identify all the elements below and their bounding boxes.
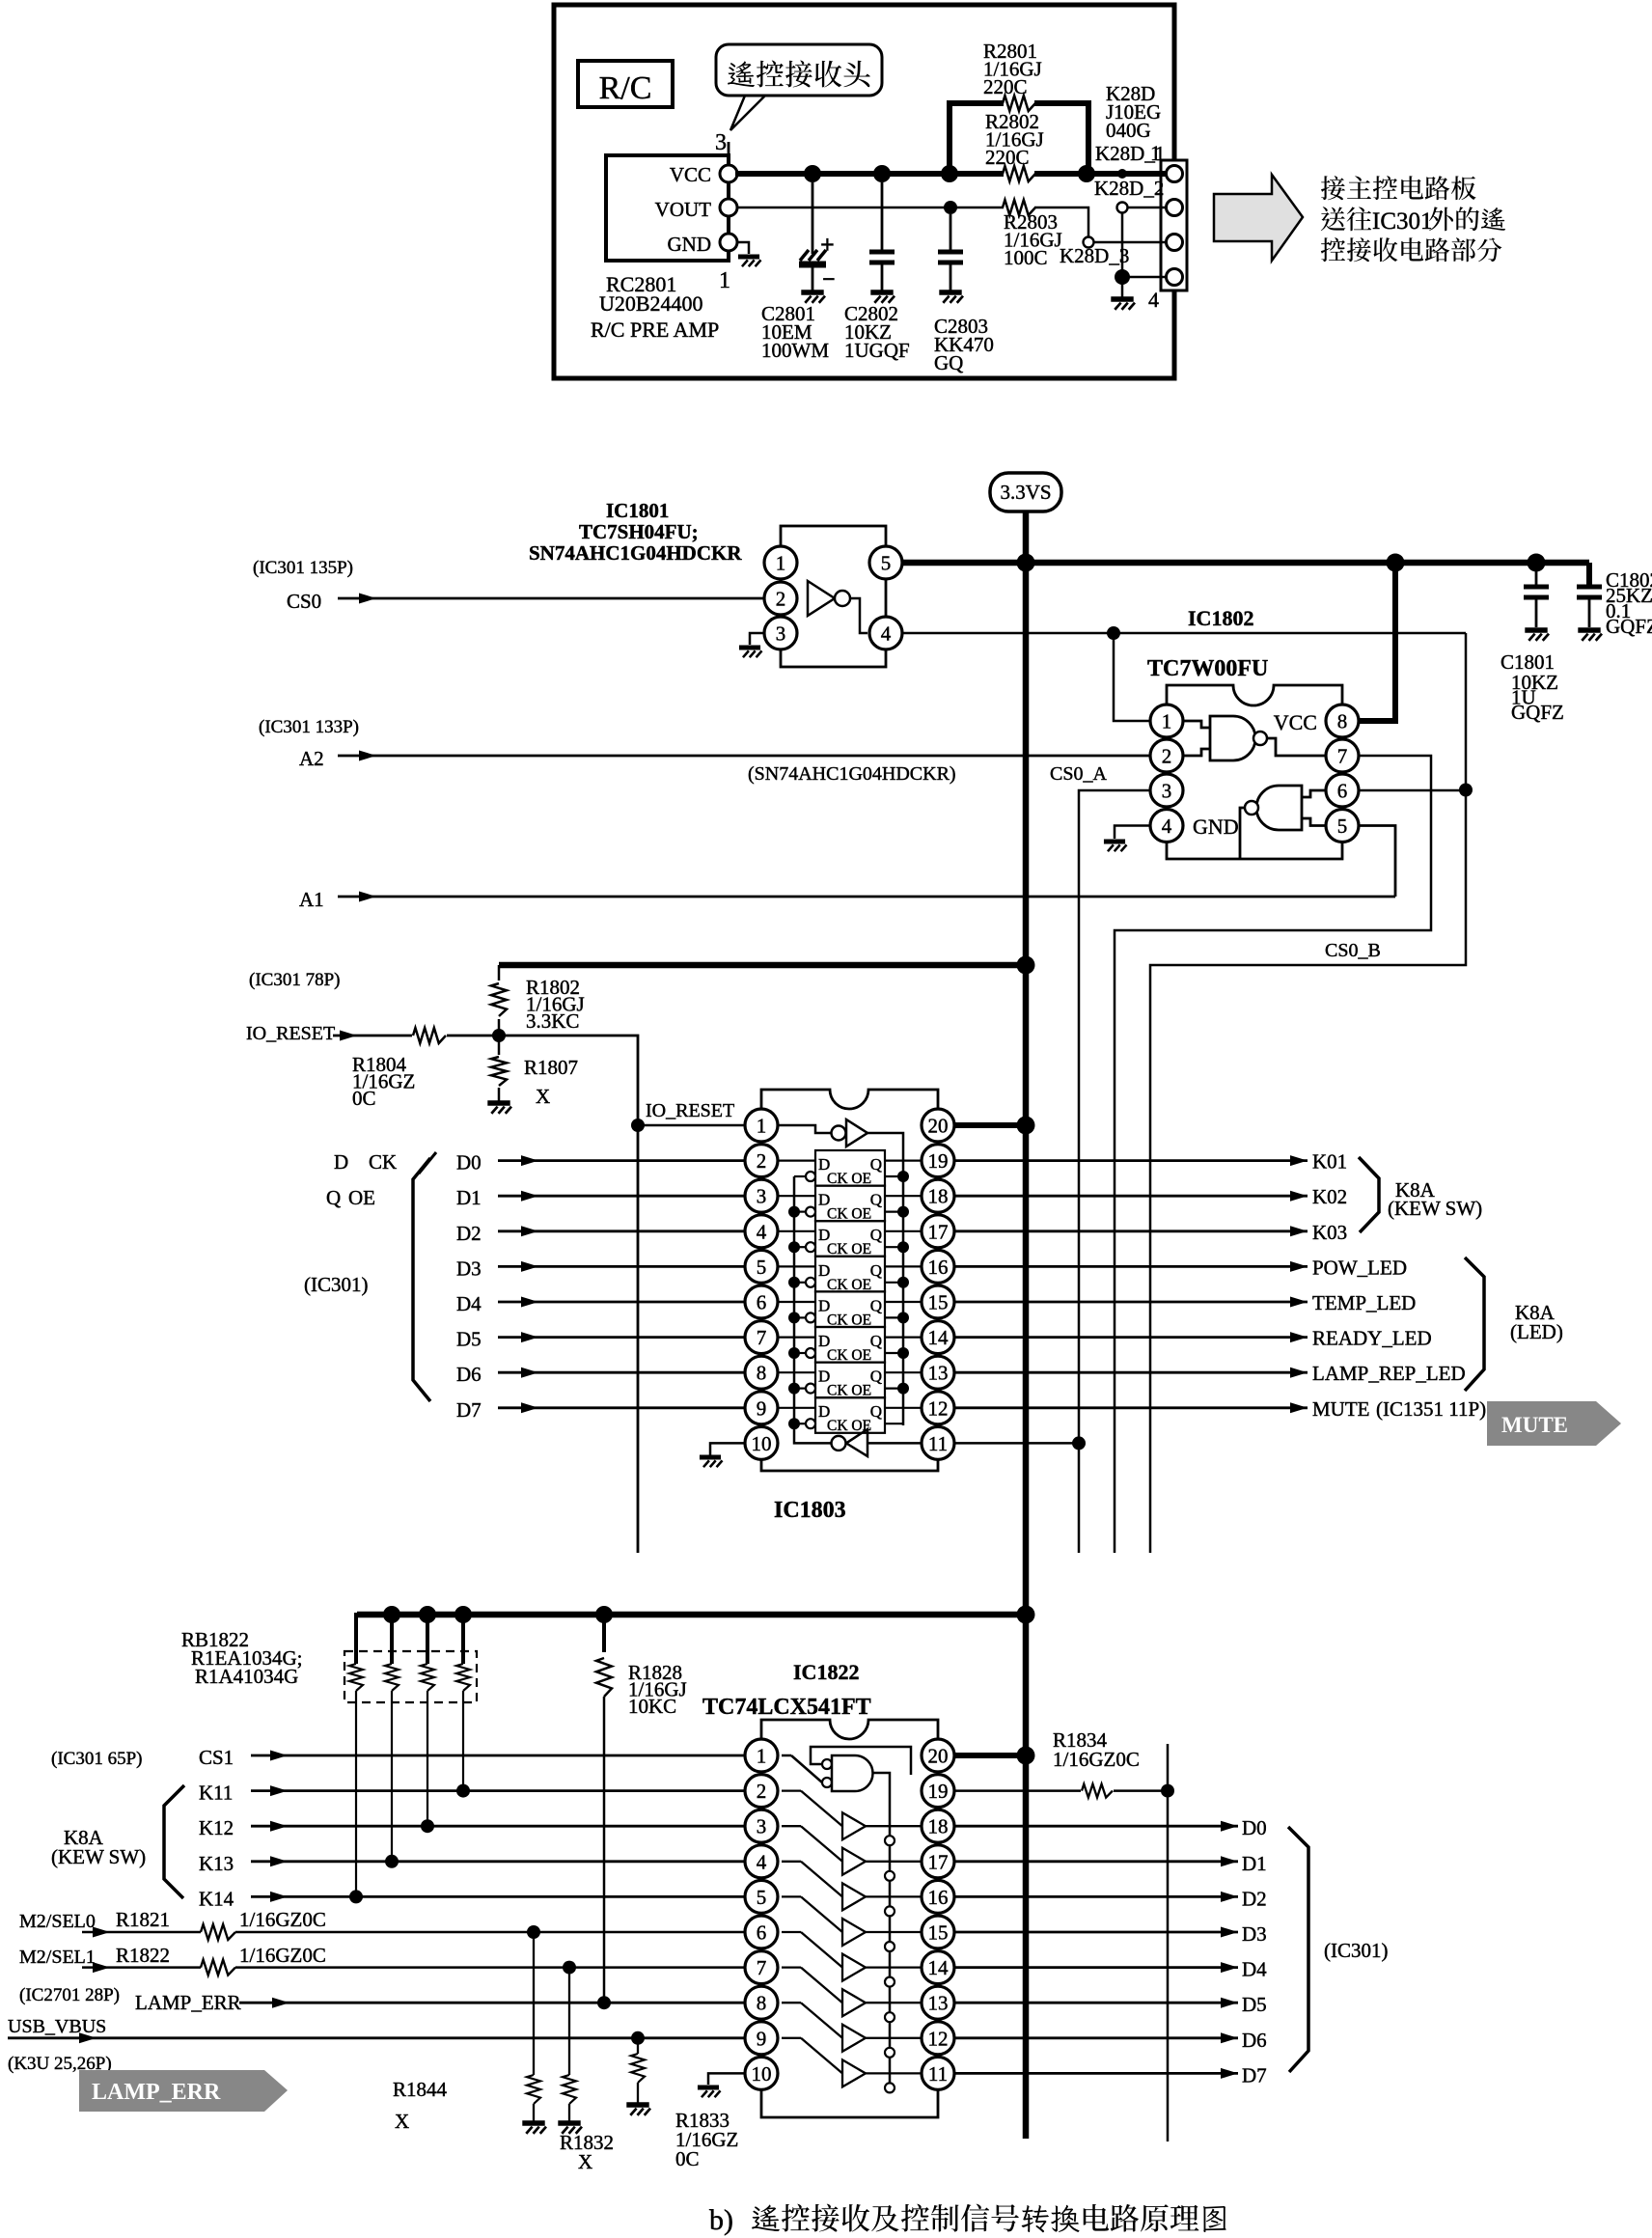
ground at C1802 <box>1578 627 1600 632</box>
IC1822 pin 17 <box>922 1845 954 1878</box>
inverter IC1803 CK <box>794 1176 922 1456</box>
svg-text:LAMP_ERR: LAMP_ERR <box>135 1991 241 2014</box>
svg-text:IC1822: IC1822 <box>793 1660 859 1684</box>
svg-text:(KEW SW): (KEW SW) <box>1388 1197 1482 1220</box>
IC1803 pin 20 <box>922 1109 954 1142</box>
wire IC1801 pin4 to IC1802 <box>903 632 1466 635</box>
IC1803 pin 4 <box>745 1215 778 1248</box>
node R1828 rail <box>595 1606 613 1623</box>
latch cell 6 of IC1803 <box>794 1363 903 1399</box>
wire M2/SEL0 to pin6 <box>235 1931 745 1934</box>
wire D0 out <box>955 1825 1238 1828</box>
IC1802 pin 3 <box>1150 774 1183 807</box>
svg-text:15: 15 <box>928 1921 949 1945</box>
svg-text:MUTE: MUTE <box>1312 1397 1370 1421</box>
svg-text:Q: Q <box>870 1368 882 1386</box>
svg-text:1: 1 <box>776 552 786 575</box>
K28D pin 2 circle <box>1166 207 1175 208</box>
RC2801 GND wire <box>737 242 749 254</box>
ground at C2802 <box>870 290 893 294</box>
svg-text:CK OE: CK OE <box>827 1277 871 1293</box>
3.3VS rail to R1802 <box>499 962 1026 969</box>
svg-text:A2: A2 <box>299 747 324 770</box>
IC1803 pin 7 <box>745 1321 778 1354</box>
svg-text:19: 19 <box>928 1780 949 1803</box>
svg-text:R1A41034G: R1A41034G <box>195 1665 298 1688</box>
wire D2 to IC1803 <box>498 1230 745 1232</box>
svg-text:D0: D0 <box>1242 1816 1267 1839</box>
wire IC1803 Q0 internal <box>885 1159 922 1161</box>
ground at C1801 <box>1525 627 1547 632</box>
node pin11/CS0_A <box>1072 1436 1086 1450</box>
ground at R1807 <box>487 1100 509 1105</box>
node RB1822-3 rail <box>419 1606 436 1623</box>
buffer IC1822-1 <box>782 1791 922 1846</box>
IC1822 pin 10 <box>745 2057 778 2089</box>
svg-text:1UGQF: 1UGQF <box>844 339 910 362</box>
IC1803 pin 14 <box>922 1321 954 1354</box>
wire K13 <box>251 1860 745 1863</box>
svg-text:CK OE: CK OE <box>827 1418 871 1434</box>
svg-text:1: 1 <box>1162 710 1172 733</box>
svg-text:(IC2701 28P): (IC2701 28P) <box>19 1985 120 2005</box>
svg-text:7: 7 <box>757 1326 767 1349</box>
resistor R1834 <box>1082 1784 1113 1798</box>
svg-text:10KC: 10KC <box>628 1695 676 1718</box>
svg-text:TC7SH04FU;: TC7SH04FU; <box>579 520 699 543</box>
RC2801 body box <box>606 155 729 261</box>
IC1802 pin 5 <box>1326 810 1359 843</box>
svg-text:GND: GND <box>668 233 712 256</box>
svg-text:D0: D0 <box>456 1151 482 1174</box>
wire D1 to IC1803 <box>498 1195 745 1198</box>
IC1822 pin 12 <box>922 2022 954 2055</box>
svg-text:8: 8 <box>1337 710 1348 733</box>
svg-text:CK OE: CK OE <box>827 1206 871 1223</box>
buffer IC1822-8 <box>782 2038 922 2093</box>
svg-text:D1: D1 <box>1242 1852 1267 1875</box>
ground at C2801 <box>801 290 823 294</box>
svg-text:IC301: IC301 <box>1372 208 1433 235</box>
wire R1834 to stub <box>1114 1789 1168 1792</box>
IC1803 pin 10 <box>745 1426 778 1459</box>
svg-text:100WM: 100WM <box>761 339 829 362</box>
wire M2/SEL1 in <box>82 1966 201 1969</box>
node IC1802 pin1 branch <box>1107 626 1120 640</box>
node OE bus cell 4 <box>897 1312 909 1323</box>
IC1803 pin 3 <box>745 1179 778 1212</box>
svg-text:9: 9 <box>757 1396 767 1420</box>
IC1802 pin 7 <box>1326 739 1359 772</box>
svg-text:5: 5 <box>1337 815 1348 838</box>
brace K8A LED <box>1465 1257 1484 1391</box>
IC1822 pin 18 <box>922 1810 954 1842</box>
wire IO_RESET in <box>333 1035 412 1037</box>
node C1801 rail <box>1528 554 1546 572</box>
IC1803 pin 2 <box>745 1145 778 1177</box>
svg-text:VCC: VCC <box>1274 710 1317 734</box>
wire K28D_4 to pin4 <box>1122 276 1166 279</box>
node RB1822/K12 <box>421 1819 434 1833</box>
svg-text:10: 10 <box>752 1432 772 1455</box>
buffer IC1822-7 <box>782 2003 922 2058</box>
svg-text:17: 17 <box>928 1850 949 1873</box>
latch cell 7 of IC1803 <box>794 1397 903 1434</box>
IC1803 pin 5 <box>745 1250 778 1283</box>
node RB1822/K14 <box>349 1890 363 1903</box>
wire IC1803 pin20 VCC <box>955 1122 1026 1128</box>
capacitor C2802 <box>881 182 884 252</box>
latch cell 3 of IC1803 <box>794 1257 903 1293</box>
3.3VS vertical bus <box>1023 511 1030 2139</box>
buffer IC1822-3 <box>782 1862 922 1917</box>
svg-text:IC1803: IC1803 <box>774 1498 846 1523</box>
IC1803 pin 15 <box>922 1285 954 1318</box>
buffer IC1822-4 <box>782 1896 922 1951</box>
wire IC1803 D0 internal <box>778 1159 815 1161</box>
node IO_RESET pin1 <box>631 1119 645 1132</box>
svg-text:D2: D2 <box>456 1222 482 1245</box>
ground at IC1802 pin4 <box>1104 839 1125 843</box>
wire IC1803 D2 internal <box>778 1230 815 1232</box>
svg-text:(IC301): (IC301) <box>1324 1939 1389 1962</box>
resistor R2801 <box>1003 96 1035 111</box>
resistor R1807 <box>498 1036 501 1055</box>
node VCC drop IC1802 <box>1387 554 1405 572</box>
node R2801/VCC <box>941 165 958 182</box>
IC1803 pin 19 <box>922 1145 954 1177</box>
IC1801 pin 5 <box>869 546 902 579</box>
svg-text:3: 3 <box>1162 780 1172 803</box>
wire K28D_2 down to pin4 <box>1121 212 1124 277</box>
svg-text:GQFZ: GQFZ <box>1606 615 1652 638</box>
svg-text:VOUT: VOUT <box>655 198 711 221</box>
svg-text:b): b) <box>709 2204 733 2236</box>
svg-text:15: 15 <box>928 1291 949 1314</box>
svg-text:5: 5 <box>881 552 892 575</box>
svg-text:1: 1 <box>757 1115 767 1138</box>
IC1801 pin 3 <box>764 617 797 649</box>
svg-text:D2: D2 <box>1242 1887 1267 1910</box>
svg-text:VCC: VCC <box>670 163 711 186</box>
wire R1804 to node <box>447 1035 499 1037</box>
IC1822 pin 6 <box>745 1916 778 1948</box>
svg-text:14: 14 <box>928 1326 950 1349</box>
IC1822 pin 9 <box>745 2022 778 2055</box>
svg-text:LAMP_REP_LED: LAMP_REP_LED <box>1312 1362 1466 1385</box>
svg-text:4: 4 <box>1162 815 1172 838</box>
callout bubble 遥控接收头 <box>716 44 882 130</box>
svg-text:Q: Q <box>870 1332 882 1350</box>
node rail/bus <box>1017 956 1035 975</box>
wire K01 <box>955 1159 1308 1162</box>
IC1803 pin 13 <box>922 1356 954 1389</box>
node pin6/pin4 join <box>1459 784 1473 797</box>
node CK bus cell 6 <box>788 1383 800 1395</box>
svg-text:M2/SEL1: M2/SEL1 <box>19 1947 96 1968</box>
svg-text:0C: 0C <box>675 2147 700 2170</box>
wire R2803 to K28D_3 <box>1034 207 1088 236</box>
svg-text:D7: D7 <box>1242 2063 1267 2086</box>
svg-text:1/16GZ0C: 1/16GZ0C <box>239 1908 326 1931</box>
IC1801 box <box>781 526 886 667</box>
svg-text:CK: CK <box>369 1150 397 1174</box>
svg-text:3.3VS: 3.3VS <box>1000 481 1051 504</box>
svg-text:16: 16 <box>928 1256 949 1279</box>
svg-text:18: 18 <box>928 1185 949 1208</box>
node C2803/VOUT <box>944 201 957 214</box>
IC1803 pin 18 <box>922 1179 954 1212</box>
svg-text:14: 14 <box>928 1956 950 1979</box>
svg-text:K14: K14 <box>199 1887 234 1910</box>
capacitor C2803 <box>950 214 952 252</box>
svg-text:R1822: R1822 <box>116 1944 170 1967</box>
wire IC1802 pin3 CS0_A <box>1079 790 1150 1553</box>
node rail bus bottom <box>1017 1606 1035 1624</box>
svg-text:D6: D6 <box>1242 2029 1267 2052</box>
ground at R1844 <box>522 2120 544 2125</box>
latch cell 0 of IC1803 <box>794 1150 903 1187</box>
svg-text:TC7W00FU: TC7W00FU <box>1147 656 1268 681</box>
wire MUTE <box>955 1406 1308 1409</box>
MUTE banner <box>1487 1401 1621 1446</box>
K28D pin 1 circle <box>1166 173 1175 175</box>
IC1803 pin 1 <box>745 1109 778 1142</box>
node OE bus cell 2 <box>897 1241 909 1253</box>
IC1803 pin 11 <box>922 1426 954 1459</box>
wire IO_RESET to IC1803 <box>499 1036 638 1553</box>
svg-text:Q: Q <box>870 1402 882 1421</box>
K28D pin 3 circle <box>1166 241 1175 243</box>
resistor RB1822-4 <box>456 1615 470 1691</box>
IC1822 pin 4 <box>745 1845 778 1878</box>
svg-text:TC74LCX541FT: TC74LCX541FT <box>702 1695 871 1720</box>
ground at R1832 <box>558 2120 580 2125</box>
svg-text:X: X <box>536 1085 550 1108</box>
IC1822 pin 1 <box>745 1739 778 1772</box>
svg-text:(IC301): (IC301) <box>304 1273 369 1296</box>
wire D6 out <box>955 2036 1238 2039</box>
resistor RB1822-1 <box>349 1615 363 1691</box>
resistor R1844 <box>533 1932 535 2075</box>
svg-text:M2/SEL0: M2/SEL0 <box>19 1911 96 1932</box>
IC1802 pin 4 <box>1150 810 1183 843</box>
wire IC1803 D6 internal <box>778 1371 815 1373</box>
wire IC1803 Q5 internal <box>885 1336 922 1338</box>
IC1801 pin 4 <box>869 617 902 649</box>
capacitor C1801 <box>1535 568 1538 587</box>
svg-text:1: 1 <box>1150 141 1161 165</box>
node pin20 bus <box>1017 1117 1035 1135</box>
node CK bus cell 5 <box>788 1347 800 1359</box>
wire LAMP_ERR <box>239 2002 745 2004</box>
ground at C2803 <box>939 290 961 294</box>
svg-text:Q: Q <box>870 1155 882 1174</box>
svg-text:CS1: CS1 <box>199 1746 234 1769</box>
svg-text:CK OE: CK OE <box>827 1347 871 1364</box>
wire CS0 <box>338 597 764 600</box>
power flag 3.3VS <box>990 473 1061 511</box>
buffer IC1822-5 <box>782 1932 922 1987</box>
node SEL1 pulldown <box>563 1961 576 1975</box>
wire D7 to IC1803 <box>498 1406 745 1409</box>
capacitor C1802 <box>1577 585 1602 590</box>
node LAMP_ERR/R1828 <box>597 1996 611 2009</box>
wire IC1803 Q2 internal <box>885 1230 922 1232</box>
nand gate U1802B <box>1240 786 1327 858</box>
svg-text:LAMP_ERR: LAMP_ERR <box>92 2080 221 2105</box>
wire D7 out <box>955 2072 1238 2075</box>
node C2801/VCC <box>804 165 821 182</box>
svg-text:D3: D3 <box>456 1257 482 1280</box>
wire READY_LED <box>955 1336 1308 1339</box>
svg-text:GQFZ: GQFZ <box>1511 701 1564 724</box>
svg-text:CS0_B: CS0_B <box>1325 940 1381 961</box>
svg-text:18: 18 <box>928 1815 949 1838</box>
resistor R1832 <box>568 1968 570 2075</box>
svg-text:13: 13 <box>928 1992 949 2015</box>
brace (IC301) right <box>1288 1827 1308 2072</box>
svg-text:CK OE: CK OE <box>827 1312 871 1328</box>
svg-text:A1: A1 <box>299 888 324 911</box>
LAMP_ERR banner <box>79 2070 288 2112</box>
wire VCC to pin8 <box>1360 563 1395 721</box>
wire D4 to IC1803 <box>498 1301 745 1304</box>
svg-text:12: 12 <box>928 2027 949 2050</box>
resistor R1821 <box>201 1924 235 1940</box>
wire IC1803 pin11 to CS0_A <box>955 1442 1079 1445</box>
node CK bus cell 7 <box>788 1418 800 1429</box>
IC1822 pin 14 <box>922 1951 954 1984</box>
svg-text:K13: K13 <box>199 1852 234 1875</box>
node R1802/R1807 <box>492 1029 506 1042</box>
svg-text:2: 2 <box>757 1149 767 1173</box>
IC1803 pin 12 <box>922 1392 954 1424</box>
node OE bus cell 0 <box>897 1171 909 1182</box>
wire K28D_2 to pin2 <box>1127 207 1166 209</box>
ground at RC2801 pin 1 <box>738 254 759 259</box>
svg-text:Q: Q <box>870 1261 882 1280</box>
wire CS1 <box>251 1754 745 1757</box>
svg-text:4: 4 <box>881 622 892 646</box>
R/C label box <box>578 61 673 107</box>
wire IC1803 Q6 internal <box>885 1371 922 1373</box>
svg-text:6: 6 <box>757 1291 767 1314</box>
wire D3 to IC1803 <box>498 1265 745 1268</box>
svg-text:R1844: R1844 <box>393 2078 448 2101</box>
IC1803 pin 9 <box>745 1392 778 1424</box>
svg-text:12: 12 <box>928 1396 949 1420</box>
svg-text:READY_LED: READY_LED <box>1312 1327 1432 1350</box>
resistor R1828 <box>602 1615 606 1652</box>
inverter IC1803 OE <box>778 1119 903 1425</box>
wire IC1802 pin7 <box>1115 756 1431 1553</box>
svg-text:IC1802: IC1802 <box>1188 606 1253 630</box>
latch cell 4 of IC1803 <box>794 1291 903 1328</box>
svg-text:4: 4 <box>1148 288 1159 312</box>
wire IC1803 pin10 gnd <box>710 1443 745 1455</box>
svg-text:CK OE: CK OE <box>827 1241 871 1257</box>
node OE bus cell 1 <box>897 1206 909 1218</box>
wire IC1803 Q1 internal <box>885 1195 922 1197</box>
svg-text:11: 11 <box>928 2062 948 2086</box>
wire D0 to IC1803 <box>498 1159 745 1162</box>
buffer IC1822-6 <box>782 1968 922 2023</box>
resistor R1804 <box>413 1028 446 1043</box>
node K28D_2 via <box>1117 203 1128 213</box>
RC2801 pin 3 stub <box>728 142 730 166</box>
net CS0_B route <box>1150 790 1466 1553</box>
svg-text:(LED): (LED) <box>1510 1320 1563 1343</box>
wire IC1803 Q4 internal <box>885 1301 922 1303</box>
node pin20 bus bottom <box>1017 1747 1035 1765</box>
nand gate U1802A <box>1183 716 1326 760</box>
svg-text:USB_VBUS: USB_VBUS <box>8 2016 106 2037</box>
ground at IC1803 pin10 <box>700 1454 721 1459</box>
wire IC1803 Q3 internal <box>885 1265 922 1267</box>
K28D pin 4 circle <box>1166 276 1175 278</box>
svg-text:D3: D3 <box>1242 1922 1267 1946</box>
IC1803 box <box>761 1090 938 1471</box>
svg-text:2: 2 <box>1162 745 1172 768</box>
svg-text:3: 3 <box>757 1185 767 1208</box>
svg-text:R1821: R1821 <box>116 1908 170 1931</box>
svg-text:K02: K02 <box>1312 1185 1347 1208</box>
IC1803 pin 17 <box>922 1215 954 1248</box>
wire K12 <box>251 1825 745 1828</box>
wire A1 <box>338 896 1395 898</box>
brace K8A KEW SW <box>1359 1157 1379 1232</box>
svg-text:4: 4 <box>757 1850 767 1873</box>
wire IC1803 Q7 internal <box>885 1407 922 1409</box>
IC1822 pin 3 <box>745 1810 778 1842</box>
svg-text:2: 2 <box>757 1780 767 1803</box>
wire to IC1803 pin1 <box>638 1124 745 1127</box>
svg-text:CS0: CS0 <box>287 590 321 613</box>
resistor R2801 loop wire <box>950 103 1004 174</box>
wire K11 <box>251 1789 745 1792</box>
svg-text:7: 7 <box>1337 745 1348 768</box>
svg-text:D7: D7 <box>456 1398 482 1422</box>
svg-text:D6: D6 <box>456 1363 482 1386</box>
wire pin4 down to pin6 node <box>1465 633 1468 790</box>
svg-text:6: 6 <box>757 1921 767 1945</box>
svg-text:X: X <box>395 2110 409 2133</box>
svg-text:0C: 0C <box>352 1087 376 1110</box>
IC1802 pin 2 <box>1150 739 1183 772</box>
node K28D_1 tie <box>1117 169 1127 179</box>
IC1822 pin 11 <box>922 2057 954 2089</box>
wire D4 out <box>955 1966 1238 1969</box>
svg-text:(IC1351 11P): (IC1351 11P) <box>1376 1397 1486 1421</box>
resistor R1802 <box>498 965 501 981</box>
svg-text:D: D <box>334 1150 348 1174</box>
svg-text:X: X <box>578 2150 592 2173</box>
svg-text:D5: D5 <box>1242 1993 1267 2016</box>
svg-text:CS0_A: CS0_A <box>1050 763 1107 785</box>
resistor RB1822-2 <box>385 1615 399 1691</box>
svg-text:5: 5 <box>757 1886 767 1909</box>
IC1802 pin 6 <box>1326 774 1359 807</box>
arrow to main board <box>1214 175 1303 261</box>
svg-text:D5: D5 <box>456 1328 482 1351</box>
svg-text:5: 5 <box>757 1256 767 1279</box>
svg-text:CK OE: CK OE <box>827 1383 871 1399</box>
svg-text:Q: Q <box>326 1186 341 1209</box>
R/C receiver outer box <box>554 5 1174 378</box>
node C2802/VCC <box>873 165 891 182</box>
RB1822 dashed box <box>344 1651 477 1702</box>
